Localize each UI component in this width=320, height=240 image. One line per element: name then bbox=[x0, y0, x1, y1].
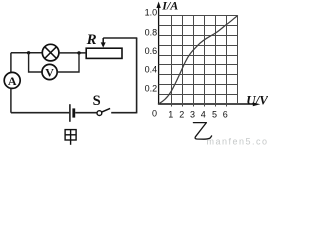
svg-text:V: V bbox=[45, 65, 54, 79]
svg-text:manfen5.com: manfen5.com bbox=[207, 137, 269, 147]
wire left rail lower bbox=[10, 88, 12, 112]
battery B1 bbox=[70, 104, 74, 122]
wire top right rail bbox=[103, 37, 137, 39]
svg-text:0.4: 0.4 bbox=[145, 65, 158, 75]
wire bottom rail to battery bbox=[11, 112, 69, 114]
wire right rail bbox=[136, 38, 138, 113]
wire voltmeter branch right bbox=[57, 53, 79, 72]
wire battery to switch bbox=[75, 112, 96, 114]
graph y-axis bbox=[156, 2, 160, 105]
svg-text:I/A: I/A bbox=[161, 0, 178, 13]
svg-text:1.0: 1.0 bbox=[145, 7, 158, 17]
svg-text:1: 1 bbox=[168, 110, 173, 120]
y axis tick labels bbox=[145, 7, 158, 118]
svg-text:3: 3 bbox=[190, 110, 195, 120]
curve I-U bbox=[159, 16, 238, 104]
svg-text:4: 4 bbox=[201, 110, 206, 120]
svg-text:A: A bbox=[8, 74, 17, 88]
junction dot right bbox=[77, 51, 80, 54]
grid horizontal lines bbox=[159, 16, 238, 95]
svg-text:R: R bbox=[86, 32, 97, 48]
wire lamp to rheostat bbox=[59, 52, 86, 54]
svg-text:U/V: U/V bbox=[246, 93, 268, 108]
voltmeter V1 bbox=[42, 64, 57, 79]
x axis tick labels bbox=[168, 110, 228, 120]
lamp L1 bbox=[42, 44, 59, 61]
rheostat R body bbox=[86, 48, 122, 58]
svg-text:5: 5 bbox=[212, 110, 217, 120]
label yi (graph) bbox=[193, 123, 211, 140]
wire voltmeter branch left bbox=[29, 53, 42, 72]
wire switch to right rail bbox=[111, 112, 136, 114]
grid vertical lines bbox=[172, 16, 238, 107]
wire top rail bbox=[11, 52, 43, 54]
svg-text:S: S bbox=[93, 93, 101, 109]
svg-text:0: 0 bbox=[152, 109, 157, 119]
svg-text:6: 6 bbox=[223, 110, 228, 120]
svg-text:2: 2 bbox=[179, 110, 184, 120]
svg-text:0.8: 0.8 bbox=[145, 28, 158, 38]
rheostat slider arrow bbox=[101, 38, 106, 48]
label jia (circuit) bbox=[65, 130, 76, 145]
ammeter A1 bbox=[4, 72, 20, 88]
svg-text:0.2: 0.2 bbox=[145, 83, 158, 93]
wire left rail bbox=[10, 53, 12, 73]
svg-text:0.6: 0.6 bbox=[145, 46, 158, 56]
switch S bbox=[97, 108, 110, 115]
graph x-axis bbox=[158, 102, 260, 106]
junction dot left bbox=[27, 51, 30, 54]
